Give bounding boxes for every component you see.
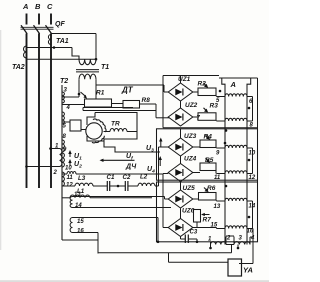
svg-text:C1: C1	[107, 174, 115, 181]
svg-text:R8: R8	[142, 97, 151, 104]
svg-text:A: A	[22, 2, 28, 11]
svg-text:10: 10	[249, 151, 256, 157]
svg-text:UZ3: UZ3	[184, 133, 197, 140]
svg-text:B: B	[35, 2, 41, 11]
svg-text:ДЧ: ДЧ	[125, 164, 137, 171]
svg-text:TA1: TA1	[56, 38, 69, 45]
svg-text:15: 15	[211, 223, 218, 229]
svg-text:UZ6: UZ6	[182, 208, 195, 215]
svg-text:12: 12	[249, 175, 256, 181]
svg-text:2: 2	[53, 170, 58, 176]
svg-text:TA2: TA2	[12, 64, 25, 71]
svg-text:T1: T1	[101, 64, 109, 71]
svg-text:C: C	[47, 2, 53, 11]
svg-text:C3: C3	[190, 230, 198, 236]
svg-text:L3: L3	[78, 175, 86, 182]
svg-text:YA: YA	[243, 266, 253, 275]
svg-text:15: 15	[77, 219, 84, 225]
svg-text:ДТ: ДТ	[121, 86, 134, 95]
svg-text:T2: T2	[60, 78, 68, 85]
svg-text:QF: QF	[55, 21, 65, 28]
svg-text:11: 11	[67, 175, 74, 181]
svg-text:R6: R6	[207, 185, 216, 192]
svg-text:UZ4: UZ4	[184, 156, 197, 163]
svg-text:UZ2: UZ2	[185, 102, 198, 109]
svg-text:UZ5: UZ5	[183, 185, 196, 192]
svg-text:TR: TR	[111, 121, 120, 128]
svg-text:R1: R1	[96, 90, 105, 97]
svg-text:16: 16	[77, 229, 84, 235]
svg-text:L2: L2	[140, 174, 148, 181]
svg-text:11: 11	[214, 175, 221, 181]
svg-text:14: 14	[249, 204, 256, 210]
svg-text:10: 10	[65, 166, 72, 172]
svg-text:13: 13	[214, 204, 221, 210]
svg-text:2: 2	[226, 236, 231, 242]
svg-text:L1: L1	[77, 188, 85, 195]
svg-text:C2: C2	[123, 174, 131, 181]
svg-text:UZ1: UZ1	[178, 76, 191, 83]
svg-text:A: A	[230, 80, 236, 89]
svg-text:4: 4	[66, 105, 71, 111]
svg-text:14: 14	[75, 203, 82, 209]
